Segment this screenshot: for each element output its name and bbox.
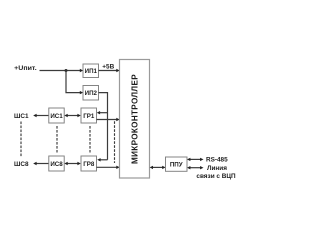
junction +Uпит branch xyxy=(65,69,68,72)
svg-text:ШС8: ШС8 xyxy=(14,161,29,168)
svg-text:ИП1: ИП1 xyxy=(85,68,98,75)
dashed ellipsis ГР outputs xyxy=(114,121,116,163)
wire ИС8-ГР8 bidirectional xyxy=(64,162,81,165)
svg-text:ГР1: ГР1 xyxy=(83,113,95,120)
wire ГР1 to microcontroller xyxy=(97,118,120,121)
svg-text:+5В: +5В xyxy=(102,64,114,71)
wire ИС8 to ШС8 xyxy=(33,162,49,165)
wire +5В ИП1 to microcontroller xyxy=(99,69,120,72)
wire ГР8 to microcontroller xyxy=(97,166,120,169)
svg-text:ИС1: ИС1 xyxy=(50,113,63,120)
dashed ellipsis ШС1..ШС8 xyxy=(20,122,22,157)
svg-text:ИС8: ИС8 xyxy=(50,161,63,168)
wire RS-485 bidirectional xyxy=(187,158,204,161)
svg-text:связи с ВЦП: связи с ВЦП xyxy=(196,173,236,180)
svg-text:+Uпит.: +Uпит. xyxy=(14,65,37,72)
wire branch to ИП2 xyxy=(66,71,83,95)
wire rail to ГР8 xyxy=(97,158,107,161)
wire ИС1-ГР1 bidirectional xyxy=(64,114,81,117)
power rail ИП2 to ГР blocks xyxy=(99,93,108,160)
block ИС1 xyxy=(49,108,64,123)
svg-text:ИП2: ИП2 xyxy=(85,90,98,97)
block ИП1 xyxy=(83,64,99,78)
wire +Uпит to ИП1 xyxy=(40,69,84,72)
block ППУ xyxy=(166,157,188,171)
dashed ellipsis ИС1..ИС8 xyxy=(56,126,58,153)
svg-text:Линия: Линия xyxy=(207,165,227,172)
block МИКРОКОНТРОЛЛЕР U1 xyxy=(120,60,150,179)
dashed ellipsis ГР1..ГР8 xyxy=(89,126,91,153)
block ИС8 xyxy=(49,156,64,171)
block ГР1 xyxy=(81,108,97,123)
wire rail to ГР1 xyxy=(97,111,108,114)
block ИП2 xyxy=(83,86,99,101)
svg-text:МИКРОКОНТРОЛЛЕР: МИКРОКОНТРОЛЛЕР xyxy=(130,74,139,164)
svg-text:ШС1: ШС1 xyxy=(14,113,29,120)
block ГР8 xyxy=(81,156,97,171)
wire ИС1 to ШС1 xyxy=(33,114,49,117)
svg-text:ГР8: ГР8 xyxy=(83,161,95,168)
wire microcontroller to ППУ bidirectional xyxy=(150,166,166,169)
svg-text:RS-485: RS-485 xyxy=(206,157,228,164)
wire Линия связи bidirectional xyxy=(187,166,204,169)
svg-text:ППУ: ППУ xyxy=(170,162,183,169)
